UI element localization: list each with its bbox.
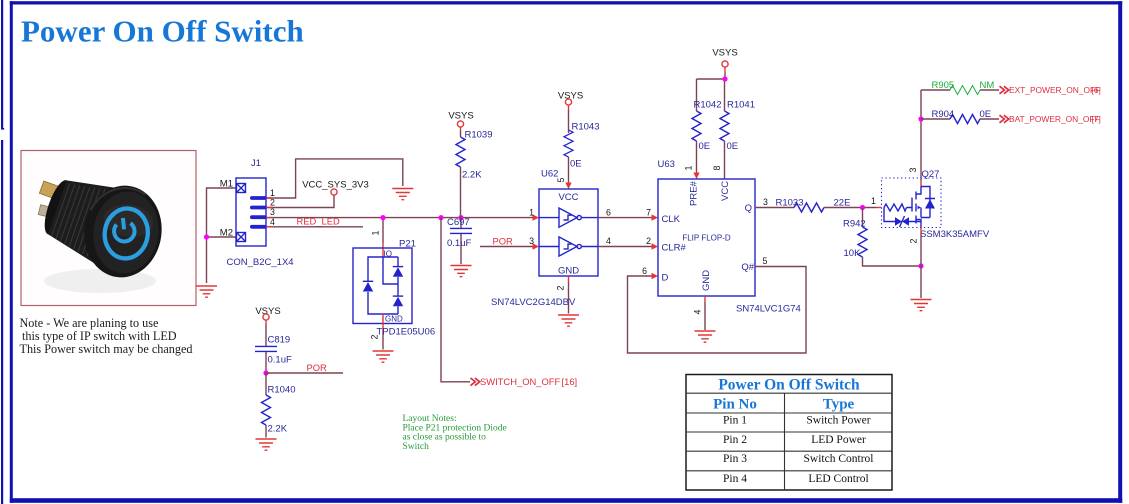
svg-text:2: 2 [909,238,919,243]
pin arrow U62 pin5 [565,183,571,190]
svg-text:R942: R942 [843,218,866,229]
svg-text:[16]: [16] [562,376,578,387]
ground M2 [196,286,217,297]
wire J1 pin4 stub [267,226,364,228]
wire U62 pin2 to ground [568,276,570,282]
svg-text:C819: C819 [268,335,291,346]
ground P21 [373,351,394,362]
svg-text:4: 4 [693,309,703,314]
wire POR to U62 pin3 [480,246,533,248]
capacitor C819 [265,320,267,324]
svg-text:Power On Off Switch: Power On Off Switch [21,14,304,49]
svg-text:GND: GND [385,315,403,324]
capacitor C697 [460,218,462,264]
ground C697 [451,266,472,277]
node junction gate/R942 [860,205,865,210]
svg-text:Switch: Switch [403,442,430,452]
svg-text:NM: NM [980,80,995,91]
svg-text:1: 1 [529,207,534,217]
note text [20,316,193,356]
svg-text:J1: J1 [251,158,261,169]
svg-text:U62: U62 [541,169,558,180]
ground J1 pin1 [392,189,413,200]
power symbol VCC_SYS_3V3 [331,189,337,195]
svg-text:Pin No: Pin No [713,397,757,413]
svg-text:SSM3K35AMFV: SSM3K35AMFV [920,229,990,240]
node junction source/R942 [918,263,923,268]
IC U62 SN74LVC2G14DBV [539,189,598,276]
node junction R1039/C697 [458,215,463,220]
wire drain net vertical [920,90,922,181]
svg-text:0E: 0E [699,141,711,152]
svg-text:3: 3 [908,167,918,172]
wire Q27 source to ground [920,228,922,234]
off-page connector BAT_POWER_ON_OFF [1000,115,1009,123]
ground R1040 [256,439,277,450]
node junction C819/POR [263,370,268,375]
svg-text:0.1uF: 0.1uF [268,354,292,365]
svg-text:6: 6 [606,207,611,217]
wire U63 pin4 to ground [704,296,706,302]
svg-text:8: 8 [712,165,722,170]
svg-text:1: 1 [270,188,275,198]
frame border top [10,1,1122,4]
photo frame box [21,151,196,306]
svg-text:SN74LVC2G14DBV: SN74LVC2G14DBV [491,297,576,308]
svg-text:6: 6 [642,266,647,276]
svg-text:RED_LED: RED_LED [297,216,340,227]
svg-text:3: 3 [763,197,768,207]
svg-text:R1040: R1040 [268,385,296,396]
pin arrows U62 inputs [533,214,540,220]
resistor R1040 [265,373,267,438]
svg-text:R1033: R1033 [776,198,804,209]
svg-text:This Power switch may be chang: This Power switch may be changed [20,342,193,356]
transistor Q27 SSM3K35AMFV [882,178,942,228]
svg-text:4: 4 [606,236,611,246]
svg-text:0E: 0E [570,159,582,170]
wires pullups to U63 pins 1,8 [697,141,725,179]
wire POR stub (C819) [266,372,343,374]
IC U63 flip-flop SN74LVC1G74 [658,179,755,296]
svg-text:Switch Control: Switch Control [804,453,874,465]
svg-text:0.1uF: 0.1uF [447,238,471,249]
svg-text:0E: 0E [980,109,992,120]
outer left border line [1,0,3,129]
svg-text:Power On Off Switch: Power On Off Switch [718,377,860,394]
resistor R1039 [460,127,462,131]
wire Q to R1033 [755,207,794,209]
off-page connector SWITCH_ON_OFF [471,378,480,386]
svg-text:CLK: CLK [662,214,681,225]
svg-text:PRE#: PRE# [689,180,700,206]
svg-text:3: 3 [270,207,275,217]
svg-text:2: 2 [270,198,275,208]
svg-text:SWITCH_ON_OFF: SWITCH_ON_OFF [480,376,560,387]
resistor R942 [863,208,922,267]
svg-text:M1: M1 [220,179,233,190]
svg-text:Note - We are planing to use: Note - We are planing to use [20,316,159,330]
svg-text:CLR#: CLR# [662,242,687,253]
connector J1 [220,158,294,268]
svg-text:D: D [662,272,669,283]
svg-text:U63: U63 [658,159,675,170]
svg-text:P21: P21 [399,239,416,250]
svg-text:2: 2 [646,236,651,246]
svg-text:TPD1E05U06: TPD1E05U06 [377,327,436,338]
svg-text:M2: M2 [220,228,233,239]
wire to R905 [921,89,950,91]
node junction switch net [438,215,443,220]
svg-text:FLIP FLOP-D: FLIP FLOP-D [682,233,731,242]
svg-text:R1041: R1041 [727,100,755,111]
svg-text:GND: GND [558,265,579,276]
wire R1033 to Q27 gate [824,207,876,209]
svg-text:[6]: [6] [1092,85,1101,95]
wire SWITCH_ON_OFF [441,218,470,382]
svg-text:[7]: [7] [1092,114,1101,124]
svg-text:1: 1 [684,165,694,170]
svg-text:SN74LVC1G74: SN74LVC1G74 [736,304,801,315]
photo: push button switch [35,167,167,293]
svg-text:2.2K: 2.2K [268,424,288,435]
wire P21 pin2 to ground [382,314,384,331]
wire to R904 [921,118,950,120]
svg-text:Pin 4: Pin 4 [723,473,747,485]
resistor R1042 [692,111,701,141]
svg-text:R1042: R1042 [694,100,722,111]
svg-text:R904: R904 [932,109,955,120]
svg-text:LED Control: LED Control [808,473,868,485]
resistor R904 [950,115,980,124]
layout note (green) [403,414,507,452]
svg-text:this type of IP switch with LE: this type of IP switch with LED [22,329,177,343]
svg-text:POR: POR [307,362,328,373]
svg-text:Pin 2: Pin 2 [723,434,747,446]
wire J1 pin1 to ground [267,159,403,198]
wire J1 pin2 to VCC_SYS_3V3 [267,195,335,207]
svg-text:VSYS: VSYS [712,48,737,59]
svg-text:VCC: VCC [720,181,731,201]
resistor R1041 [720,111,729,141]
wire RED_LED net [267,217,534,219]
wire U62 pin6 to U63 CLK [598,217,652,219]
frame border bottom [10,498,1122,503]
svg-text:Q#: Q# [741,262,754,273]
ground U62 [558,315,579,326]
TVS diode P21 [353,239,416,324]
svg-text:R1039: R1039 [465,130,493,141]
node RED_LED junction P21 [380,215,385,220]
wire P21 pin1 [382,220,384,243]
resistor R1033 [794,203,824,212]
svg-text:EXT_POWER_ON_OFF: EXT_POWER_ON_OFF [1009,85,1100,95]
svg-text:BAT_POWER_ON_OFF: BAT_POWER_ON_OFF [1009,114,1100,124]
svg-text:Switch Power: Switch Power [806,415,870,427]
svg-text:C697: C697 [447,217,470,228]
pin arrows U63 inputs [652,214,659,220]
off-page connector EXT_POWER_ON_OFF [1000,86,1009,94]
svg-text:3: 3 [529,236,534,246]
svg-text:0E: 0E [727,141,739,152]
svg-text:Type: Type [823,397,855,413]
svg-text:Q: Q [745,203,752,214]
svg-text:CON_B2C_1X4: CON_B2C_1X4 [227,257,294,268]
resistor R905 (NM, green) [950,86,980,95]
svg-text:1: 1 [871,196,876,206]
svg-text:R905: R905 [932,80,955,91]
resistor R1043 [568,105,570,110]
wire Q# to D feedback loop [628,267,807,354]
svg-text:2: 2 [556,285,566,290]
frame border left [10,1,13,503]
svg-text:Pin 3: Pin 3 [723,453,747,465]
svg-text:10K: 10K [844,248,862,259]
svg-text:LED Power: LED Power [811,434,866,446]
svg-text:1: 1 [371,230,381,235]
svg-text:Pin 1: Pin 1 [723,415,747,427]
table pin functions [686,375,892,491]
svg-text:7: 7 [646,207,651,217]
wire VSYS to R1042/R1041 [724,67,726,72]
wire U62 pin4 to U63 CLR# [598,246,652,248]
svg-text:POR: POR [493,235,514,246]
svg-text:R1043: R1043 [572,122,600,133]
node junction VSYS pullups [722,76,727,81]
ground Q27 [911,300,932,311]
junction M2 [204,234,209,239]
svg-text:VCC: VCC [558,192,578,203]
svg-text:VSYS: VSYS [448,111,473,122]
node junction BAT branch [918,116,923,121]
svg-text:VCC_SYS_3V3: VCC_SYS_3V3 [302,179,369,190]
wire M1 to M2 to ground [207,188,237,283]
frame border right [1118,1,1122,503]
ground U63 [695,331,716,342]
svg-text:5: 5 [763,256,768,266]
red pin stubs J1 [267,198,273,227]
svg-text:GND: GND [701,270,712,291]
svg-text:2.2K: 2.2K [462,170,482,181]
